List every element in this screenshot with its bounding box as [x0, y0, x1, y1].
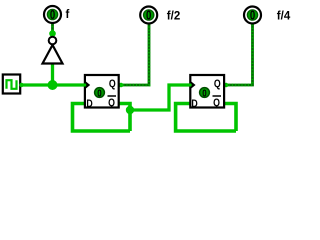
node junction on FF1 Qbar net: [126, 106, 134, 114]
output probe f/2: [140, 7, 157, 24]
svg-text:0: 0: [50, 9, 55, 22]
wire clock to FF1 clock (value 1): [20, 83, 87, 86]
svg-text:0: 0: [146, 9, 151, 22]
state disc U1 showing 0: [95, 88, 105, 98]
wire FF1 Q to probe f/2 (value 0): [120, 24, 149, 85]
state disc U2 showing 0: [200, 88, 210, 98]
svg-text:Q: Q: [214, 78, 221, 90]
node port dot FF1 Q output: [119, 83, 124, 88]
wire NOT gate input from clock line (value 1): [51, 63, 54, 86]
wire FF1 Qbar out (value 1): [120, 104, 131, 132]
node port dot FF1 clock wire end: [83, 83, 86, 86]
svg-text:f/2: f/2: [167, 11, 180, 23]
node junction on clock line: [48, 80, 58, 90]
node port dot NOT gate output: [49, 30, 56, 37]
node port dot FF2 Q output: [224, 83, 229, 88]
wire FF2 Qbar out (value 1): [225, 104, 236, 132]
D flip-flop U1: [85, 75, 119, 110]
svg-text:Q: Q: [108, 97, 115, 109]
svg-text:Q: Q: [109, 78, 116, 90]
D flip-flop U2: [190, 75, 224, 110]
clock source CLK: [3, 75, 24, 94]
wire FF1 Qbar to FF2 clock (value 1): [130, 85, 192, 110]
svg-text:D: D: [86, 98, 92, 110]
node port dot FF2 clock wire end: [189, 83, 192, 86]
wire sparkle overlay FF1 Q net: [120, 24, 149, 85]
svg-text:0: 0: [97, 87, 101, 98]
wire FF1 feedback loop bottom (value 1): [73, 104, 131, 132]
svg-text:f: f: [66, 9, 70, 21]
wire probe f to NOT output (value 0): [51, 23, 54, 37]
svg-text:0: 0: [202, 87, 206, 98]
pin clock notch U2: [190, 81, 195, 89]
svg-text:0: 0: [250, 9, 255, 22]
output probe f/4: [244, 7, 261, 24]
inverter NOT gate (pointing up): [43, 37, 63, 64]
wire sparkle overlay FF2 Q net: [226, 24, 253, 85]
wire FF2 feedback loop bottom (value 1): [176, 104, 236, 132]
pin clock notch U1: [85, 81, 90, 89]
wire FF2 Q to probe f/4 (value 0): [226, 24, 253, 85]
wire sparkle overlay probe f stub: [51, 23, 54, 37]
output probe f: [44, 6, 61, 23]
svg-text:f/4: f/4: [277, 11, 291, 23]
svg-text:D: D: [191, 98, 197, 110]
svg-text:Q: Q: [213, 97, 220, 109]
